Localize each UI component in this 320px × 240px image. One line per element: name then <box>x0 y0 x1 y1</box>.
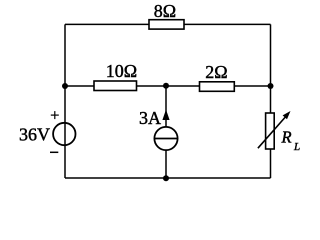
svg-text:3A: 3A <box>139 108 161 128</box>
node dot middle <box>163 83 169 89</box>
node dot right <box>268 83 274 89</box>
current source I1 circle <box>154 127 177 150</box>
wire top <box>65 23 271 25</box>
wire left vertical <box>64 24 66 178</box>
RL variable arrow <box>258 117 286 149</box>
current source diameter line <box>154 138 177 140</box>
node dot left <box>62 83 68 89</box>
resistor 10ohm <box>94 81 137 91</box>
svg-text:2Ω: 2Ω <box>205 62 227 82</box>
svg-text:36V: 36V <box>19 124 50 144</box>
wire current-source branch <box>165 86 167 178</box>
node dot bottom <box>163 175 169 181</box>
wire right vertical <box>270 24 272 178</box>
voltage source V1 circle <box>53 123 75 145</box>
resistor 2ohm <box>200 82 235 92</box>
svg-text:R: R <box>281 128 292 147</box>
svg-text:10Ω: 10Ω <box>106 61 137 81</box>
minus sign <box>50 151 58 153</box>
resistor 8ohm <box>149 20 184 29</box>
wire middle <box>65 85 271 87</box>
plus sign <box>51 111 59 119</box>
resistor RL box <box>266 113 275 149</box>
wire bottom <box>65 177 271 179</box>
svg-text:L: L <box>293 141 300 153</box>
svg-text:8Ω: 8Ω <box>154 1 176 21</box>
current source arrowhead <box>162 110 169 121</box>
